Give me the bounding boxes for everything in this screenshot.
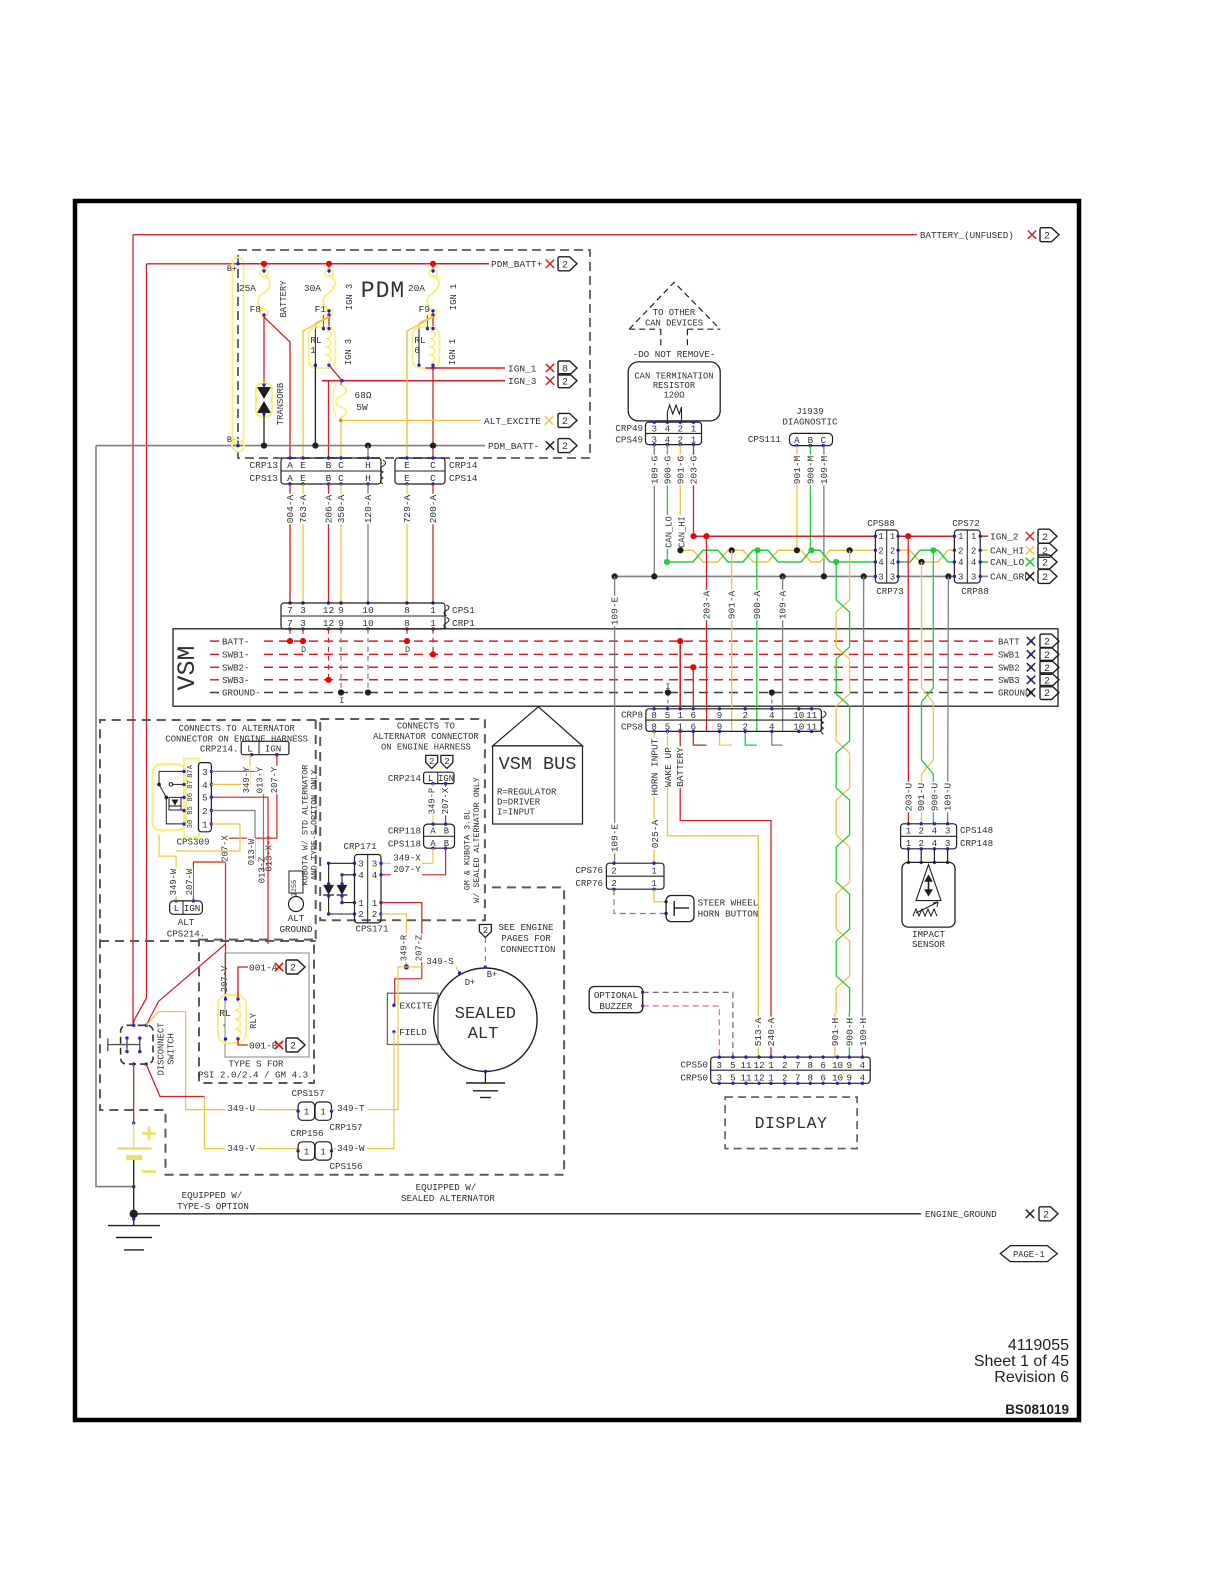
svg-text:EXCITE: EXCITE [399, 1001, 433, 1012]
svg-text:SWB3-: SWB3- [222, 675, 250, 686]
CAN termination resistor box [628, 362, 720, 421]
svg-text:2: 2 [444, 757, 449, 767]
svg-text:PDM: PDM [361, 278, 405, 304]
svg-text:DISCONNECT: DISCONNECT [157, 1023, 167, 1076]
wire 109-H [862, 576, 863, 1057]
svg-text:1: 1 [320, 1146, 326, 1157]
svg-text:5: 5 [665, 710, 671, 721]
svg-text:TYPE S FOR: TYPE S FOR [228, 1059, 284, 1070]
svg-text:H: H [365, 460, 371, 471]
wire 350-A drop [340, 420, 342, 458]
svg-text:F9: F9 [419, 304, 431, 315]
relay RL1 [328, 315, 330, 329]
svg-text:3: 3 [958, 572, 963, 582]
svg-text:BS081019: BS081019 [1005, 1402, 1069, 1417]
svg-text:349-V: 349-V [227, 1143, 255, 1154]
svg-text:4: 4 [202, 780, 208, 791]
svg-text:HORN INPUT: HORN INPUT [650, 738, 661, 795]
svg-text:R=REGULATOR: R=REGULATOR [497, 788, 557, 798]
wire left rail battery unfused [132, 235, 134, 1026]
svg-text:2: 2 [958, 546, 963, 556]
wires 349-P 207-X [432, 784, 434, 825]
vertical CAN_LO CAN_HI feed labels [665, 515, 673, 549]
svg-text:RLY: RLY [249, 1012, 259, 1029]
svg-text:SEALED ALTERNATOR: SEALED ALTERNATOR [401, 1193, 495, 1204]
svg-text:2: 2 [1042, 559, 1048, 570]
ground junction [133, 1187, 135, 1214]
svg-text:004-A: 004-A [285, 494, 296, 523]
U-turn loops into CRP8 pins [693, 731, 706, 745]
gray rail left [96, 446, 134, 1187]
svg-text:12: 12 [754, 1060, 765, 1071]
wires 109-G 900-G 901-G 203-G [653, 445, 655, 577]
svg-text:2: 2 [202, 806, 208, 817]
svg-text:SEALED: SEALED [455, 1005, 516, 1024]
svg-text:9: 9 [338, 605, 344, 616]
fuse F1 30A IGN 3 [328, 264, 330, 271]
svg-text:6: 6 [691, 710, 697, 721]
svg-text:11: 11 [806, 710, 818, 721]
PDM module box [238, 250, 590, 458]
svg-text:2: 2 [1042, 573, 1048, 584]
svg-text:3: 3 [358, 859, 364, 870]
svg-text:109-E: 109-E [610, 596, 621, 625]
wire pin1 yellow [176, 824, 240, 851]
svg-text:2: 2 [429, 757, 434, 767]
wire horn button yellow [654, 889, 666, 902]
svg-text:CPS14: CPS14 [449, 473, 478, 484]
svg-text:206-A: 206-A [324, 494, 335, 523]
connector CPS1 CRP1 [281, 603, 445, 629]
svg-text:CRP50: CRP50 [680, 1073, 708, 1084]
wire 349-W [159, 835, 176, 901]
svg-text:CPS214.: CPS214. [167, 929, 206, 940]
svg-text:WAKE UP: WAKE UP [663, 747, 674, 787]
svg-text:IGN_2: IGN_2 [990, 531, 1019, 542]
svg-text:CAN_LO: CAN_LO [665, 516, 675, 548]
see engine pages tag [479, 925, 491, 938]
CAN braid right section [898, 550, 954, 562]
connector CRP14 CPS14 [395, 458, 445, 484]
svg-text:D: D [405, 645, 410, 655]
svg-text:4119055: 4119055 [1008, 1337, 1069, 1354]
svg-text:CPS13: CPS13 [249, 473, 278, 484]
svg-text:1: 1 [202, 819, 208, 830]
svg-text:901-H: 901-H [830, 1018, 841, 1047]
svg-text:CPS76: CPS76 [575, 865, 603, 876]
svg-text:IGN 3: IGN 3 [345, 284, 355, 310]
wire 207-Y first [226, 755, 277, 944]
wire 349-T [332, 1109, 336, 1111]
svg-text:CRP73: CRP73 [876, 586, 904, 597]
impact sensor [902, 862, 955, 927]
svg-text:3: 3 [717, 1060, 723, 1071]
svg-text:4: 4 [860, 1060, 866, 1071]
svg-text:109-E: 109-E [610, 823, 621, 852]
svg-text:B+: B+ [487, 970, 498, 980]
svg-text:11: 11 [740, 1060, 752, 1071]
svg-text:349-W: 349-W [169, 868, 179, 895]
svg-text:2: 2 [1044, 689, 1050, 700]
wire 120-A drop [367, 446, 369, 458]
svg-text:SWB1: SWB1 [998, 651, 1020, 661]
wire switch yellow to 349-U [146, 1012, 298, 1110]
connector CPS50 CRP50 [711, 1057, 871, 1083]
svg-text:IGN 1: IGN 1 [449, 284, 459, 310]
wire pin5 red [211, 797, 268, 944]
svg-text:CAN_HI: CAN_HI [678, 516, 688, 548]
svg-text:HORN BUTTON: HORN BUTTON [698, 909, 759, 920]
svg-text:1: 1 [691, 423, 697, 434]
svg-text:A: A [430, 827, 436, 837]
svg-text:203-U: 203-U [903, 782, 914, 811]
twisted pair 901-U 900-U [922, 565, 934, 824]
svg-text:CPS49: CPS49 [615, 435, 643, 446]
VSM BUS legend house [493, 707, 583, 746]
svg-text:TYPE-S OPTION: TYPE-S OPTION [177, 1201, 249, 1212]
svg-text:D: D [301, 645, 306, 655]
wire ALT_EXCITE [340, 417, 342, 420]
wire 013-W [211, 811, 255, 861]
svg-text:BATT-: BATT- [222, 636, 250, 647]
svg-text:2: 2 [971, 546, 976, 556]
svg-text:349-U: 349-U [227, 1103, 255, 1114]
svg-text:.: . [221, 1018, 227, 1029]
svg-text:PAGE-1: PAGE-1 [1013, 1250, 1045, 1260]
svg-text:3: 3 [890, 572, 895, 582]
PDM internal B+ bus highlight [233, 258, 244, 445]
svg-text:109-A: 109-A [778, 590, 789, 619]
wire CAN_GRD bus [615, 575, 876, 577]
svg-text:4: 4 [932, 825, 938, 836]
wire F1 to pin E 763-A [303, 317, 329, 458]
svg-text:207-Y: 207-Y [393, 864, 421, 875]
svg-text:4: 4 [358, 870, 364, 881]
svg-text:CPS111: CPS111 [748, 434, 782, 445]
svg-text:CRP157: CRP157 [329, 1122, 362, 1133]
svg-text:CRP88: CRP88 [961, 586, 989, 597]
wire IGN_1 [425, 367, 505, 369]
svg-text:901-U: 901-U [916, 782, 927, 811]
VSM row SWB2 [210, 666, 219, 668]
wire switch red to 349-V [146, 1064, 204, 1096]
svg-text:C: C [338, 460, 344, 471]
svg-text:87A: 87A [187, 764, 195, 778]
svg-text:3: 3 [300, 605, 306, 616]
svg-text:IGN_1: IGN_1 [508, 363, 537, 374]
svg-text:2: 2 [372, 909, 378, 920]
ground symbol [133, 1214, 135, 1226]
svg-text:2: 2 [1044, 231, 1050, 242]
svg-text:CONNECTS TO: CONNECTS TO [397, 722, 455, 732]
wire horn button ground dashed [614, 889, 666, 913]
wire 109-E [614, 576, 616, 863]
svg-text:CPS157: CPS157 [291, 1088, 324, 1099]
svg-text:1: 1 [304, 1107, 310, 1118]
svg-text:349-X: 349-X [393, 853, 421, 864]
svg-text:T255: T255 [291, 880, 299, 896]
svg-text:203-A: 203-A [702, 590, 713, 619]
svg-text:PAGES FOR: PAGES FOR [501, 933, 551, 944]
svg-text:2: 2 [1043, 1210, 1049, 1221]
connector CRP13 CPS13 [281, 458, 381, 484]
svg-text:D+: D+ [465, 978, 476, 988]
svg-text:5: 5 [730, 1060, 736, 1071]
svg-text:FIELD: FIELD [399, 1027, 427, 1038]
svg-text:349-Y: 349-Y [242, 766, 252, 793]
svg-text:CPS118: CPS118 [388, 839, 421, 850]
svg-text:2: 2 [782, 1060, 788, 1071]
svg-text:CRP1: CRP1 [452, 618, 475, 629]
svg-text:CRP14: CRP14 [449, 460, 478, 471]
svg-text:1: 1 [878, 532, 883, 542]
svg-text:1: 1 [958, 532, 963, 542]
svg-text:109-M: 109-M [819, 455, 830, 484]
svg-text:CONNECTS TO ALTERNATOR: CONNECTS TO ALTERNATOR [179, 724, 296, 734]
svg-text:349-W: 349-W [337, 1143, 365, 1154]
wire F8 to pin A 004-A [264, 317, 290, 458]
svg-text:2: 2 [562, 417, 568, 428]
svg-text:CAN_HI: CAN_HI [990, 546, 1024, 557]
battery symbol [133, 1123, 135, 1148]
connector ALT CPS214 [170, 901, 203, 914]
svg-text:207-W: 207-W [185, 868, 195, 895]
svg-text:109-G: 109-G [649, 455, 660, 484]
svg-text:68Ω: 68Ω [354, 390, 371, 401]
wire 001-A [238, 967, 248, 999]
svg-text:PDM_BATT+: PDM_BATT+ [491, 259, 543, 270]
wire WAKE UP 513-A [668, 731, 759, 1057]
svg-text:TO OTHER: TO OTHER [653, 308, 696, 318]
svg-text:2: 2 [562, 260, 568, 271]
wires 203-U 901-U 900-U 109-U [907, 536, 909, 824]
svg-text:3: 3 [202, 767, 208, 778]
svg-text:CRP8: CRP8 [621, 710, 643, 721]
display box [725, 1097, 857, 1149]
VSM internal taps right side [679, 641, 681, 709]
svg-text:L: L [174, 903, 180, 914]
svg-text:2: 2 [1042, 547, 1048, 558]
svg-text:4: 4 [878, 558, 883, 568]
svg-text:CPS88: CPS88 [867, 518, 895, 529]
svg-text:IGN_3: IGN_3 [508, 376, 537, 387]
svg-text:2: 2 [611, 878, 617, 889]
svg-text:E: E [404, 460, 410, 471]
svg-text:CAN_GRD: CAN_GRD [990, 572, 1030, 583]
svg-text:1: 1 [651, 878, 657, 889]
wire CAN_LO out [980, 561, 988, 563]
svg-text:5: 5 [202, 793, 208, 804]
svg-text:207-X: 207-X [221, 835, 231, 862]
svg-text:109-H: 109-H [858, 1018, 869, 1047]
PDM_BATT+ bus inside PDM [238, 263, 489, 265]
svg-text:PSI 2.0/2.4 / GM 4.3: PSI 2.0/2.4 / GM 4.3 [198, 1070, 308, 1081]
svg-text:10: 10 [362, 605, 374, 616]
wires 901-M 900-M 109-M [796, 446, 798, 551]
svg-text:8: 8 [651, 710, 657, 721]
svg-text:12: 12 [323, 605, 335, 616]
svg-text:A: A [287, 460, 293, 471]
svg-text:109-U: 109-U [943, 782, 954, 811]
transorb [263, 315, 265, 385]
svg-text:1: 1 [890, 532, 895, 542]
svg-text:IGN: IGN [265, 744, 282, 755]
svg-text:1: 1 [677, 710, 683, 721]
svg-text:87: 87 [187, 780, 195, 789]
svg-text:207-Y: 207-Y [270, 766, 280, 793]
VSM row SWB3 [210, 679, 219, 681]
tags 2 2 down [426, 755, 438, 768]
optional buzzer [589, 987, 643, 1013]
fuse F9 20A IGN 1 [432, 264, 434, 271]
svg-text:2: 2 [890, 546, 895, 556]
PDM_BATT- bus [96, 445, 485, 447]
svg-text:C: C [430, 460, 436, 471]
svg-text:001-B: 001-B [249, 1040, 278, 1051]
svg-text:4: 4 [890, 558, 895, 568]
svg-text:CAN DEVICES: CAN DEVICES [645, 319, 703, 329]
svg-text:CRP214: CRP214 [388, 773, 422, 784]
svg-text:SWITCH: SWITCH [167, 1033, 177, 1065]
wires into switch top [134, 998, 147, 1025]
svg-text:IGN 1: IGN 1 [448, 339, 458, 365]
svg-text:2: 2 [918, 825, 924, 836]
wire 207-X label [221, 834, 229, 862]
svg-text:W/ SEALED ALTERNATOR ONLY: W/ SEALED ALTERNATOR ONLY [472, 777, 482, 903]
wire 013-Y [211, 771, 263, 871]
svg-text:2: 2 [483, 926, 488, 936]
svg-text:B+: B+ [227, 264, 237, 274]
svg-text:207-X: 207-X [441, 787, 451, 814]
svg-text:D=DRIVER: D=DRIVER [497, 798, 541, 808]
svg-text:013-Y: 013-Y [256, 766, 266, 793]
svg-text:1: 1 [372, 898, 378, 909]
svg-text:GM & KUBOTA 3.8L: GM & KUBOTA 3.8L [463, 810, 473, 890]
wire BATTERY_(UNFUSED) [133, 234, 917, 236]
svg-text:349-P: 349-P [428, 788, 438, 814]
svg-text:J1939: J1939 [796, 406, 824, 417]
svg-text:L: L [247, 744, 253, 755]
wire F1 to RL1 left pin [316, 316, 329, 329]
wire 207-V down [225, 944, 227, 999]
wire 207-W [193, 862, 225, 901]
resistor 68ohm 5W [336, 385, 347, 417]
svg-text:TRANSORB: TRANSORB [276, 383, 286, 425]
wire IGN_2 bus [694, 535, 876, 537]
svg-text:9: 9 [717, 710, 723, 721]
svg-text:513-A: 513-A [753, 1017, 764, 1046]
VSM row BATT [210, 640, 219, 642]
svg-text:2: 2 [611, 866, 617, 877]
svg-text:SENSOR: SENSOR [912, 939, 946, 950]
svg-text:ALT: ALT [288, 913, 305, 924]
svg-text:2: 2 [562, 377, 568, 388]
svg-text:RESISTOR: RESISTOR [653, 381, 696, 391]
relay RLY [218, 995, 246, 1043]
svg-text:PDM_BATT-: PDM_BATT- [488, 441, 539, 452]
connector CPS76 CRP76 [606, 863, 664, 889]
svg-text:900-U: 900-U [929, 782, 940, 811]
wire field 349-W down [332, 1032, 394, 1149]
svg-text:SWB3: SWB3 [998, 676, 1020, 686]
wire RL1 to PDM_BATT- [314, 365, 316, 445]
svg-text:2: 2 [290, 964, 296, 975]
svg-text:BATTERY: BATTERY [675, 747, 686, 787]
svg-text:GROUND-: GROUND- [222, 688, 261, 699]
svg-text:3: 3 [945, 825, 951, 836]
wire 200-A drop [432, 368, 434, 458]
svg-text:4: 4 [372, 870, 378, 881]
svg-text:CPS309: CPS309 [176, 837, 209, 848]
svg-text:B: B [444, 827, 449, 837]
svg-text:STEER WHEEL: STEER WHEEL [698, 898, 759, 909]
steer wheel horn button [666, 896, 694, 922]
svg-text:DIAGNOSTIC: DIAGNOSTIC [782, 417, 838, 428]
svg-text:AND TYPE-S OPTION ONLY: AND TYPE-S OPTION ONLY [310, 770, 320, 881]
svg-text:8: 8 [808, 1060, 814, 1071]
svg-text:729-A: 729-A [402, 494, 413, 523]
svg-text:1: 1 [971, 532, 976, 542]
svg-text:85: 85 [187, 806, 195, 815]
svg-text:SWB1-: SWB1- [222, 650, 250, 661]
dashed sub-box GM KUBOTA sealed alt [320, 719, 485, 920]
svg-text:6: 6 [820, 1060, 826, 1071]
svg-text:CPS8: CPS8 [621, 722, 643, 733]
svg-text:CRP13: CRP13 [249, 460, 278, 471]
svg-text:CRP118: CRP118 [388, 826, 421, 837]
svg-text:900-A: 900-A [752, 590, 763, 619]
svg-text:901-G: 901-G [675, 455, 686, 484]
svg-text:901-A: 901-A [727, 590, 738, 619]
svg-text:ENGINE_GROUND: ENGINE_GROUND [925, 1209, 997, 1220]
alternator ground [484, 1071, 486, 1083]
svg-text:E: E [300, 460, 306, 471]
twisted pair 901-H 900-H [836, 562, 849, 1013]
svg-text:349-S: 349-S [426, 956, 454, 967]
svg-text:025-A: 025-A [650, 819, 661, 848]
svg-text:1: 1 [304, 1146, 310, 1157]
svg-text:1: 1 [320, 1107, 326, 1118]
svg-text:DISPLAY: DISPLAY [755, 1114, 828, 1133]
svg-text:CRP156: CRP156 [290, 1128, 323, 1139]
wire 349-Y [211, 755, 250, 785]
svg-text:CRP76: CRP76 [575, 878, 603, 889]
wire CAN_HI out [980, 549, 988, 551]
svg-text:10: 10 [793, 710, 804, 721]
svg-text:350-A: 350-A [336, 494, 347, 523]
svg-text:203-G: 203-G [689, 455, 700, 484]
svg-text:86: 86 [187, 793, 195, 802]
svg-text:BATT: BATT [998, 637, 1020, 647]
svg-text:2: 2 [290, 1042, 296, 1053]
svg-text:ALTERNATOR CONNECTOR: ALTERNATOR CONNECTOR [373, 732, 479, 742]
wire IGN_3 [329, 365, 342, 381]
svg-text:207-Z: 207-Z [415, 935, 425, 961]
dashed region type-s and alternator connector [100, 720, 564, 1175]
wire 729-A RL6 branch [406, 331, 408, 446]
svg-text:001-A: 001-A [249, 962, 278, 973]
svg-text:OPTIONAL: OPTIONAL [594, 990, 638, 1001]
svg-text:4: 4 [665, 423, 671, 434]
wire BATTERY 240-A [680, 731, 771, 1057]
svg-text:CRP214.: CRP214. [200, 744, 239, 755]
svg-text:GROUND: GROUND [279, 924, 313, 935]
svg-text:SWB2: SWB2 [998, 664, 1020, 674]
svg-text:901-M: 901-M [792, 455, 803, 484]
svg-text:20A: 20A [408, 283, 425, 294]
wire 349-S [404, 964, 409, 969]
svg-text:25A: 25A [239, 283, 256, 294]
